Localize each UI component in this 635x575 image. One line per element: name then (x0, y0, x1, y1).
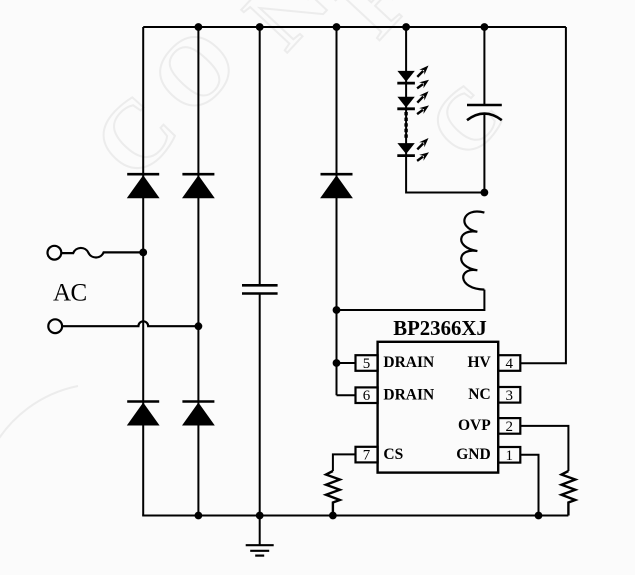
wire drain branch (336, 27, 338, 395)
pin 3 box (498, 387, 520, 404)
wire pin6 stub (337, 394, 356, 396)
pin 4 box (498, 355, 520, 372)
diode D4 (182, 402, 215, 426)
svg-text:4: 4 (505, 356, 513, 372)
wire inductor return (337, 290, 485, 310)
svg-text:NC: NC (468, 386, 490, 403)
node inductor top junction (481, 189, 489, 197)
pin 5 box (356, 355, 378, 372)
svg-text:HV: HV (467, 354, 491, 371)
label DRAIN pin5 (383, 354, 434, 371)
node top bus junctions (195, 23, 489, 31)
wire top bus (143, 26, 566, 28)
node pin5 junction (333, 359, 341, 367)
node fuse-bridge junction (139, 249, 147, 257)
capacitor C2 output (467, 105, 502, 120)
label HV (467, 354, 491, 371)
pin 6 box (356, 387, 378, 404)
svg-text:CS: CS (383, 446, 403, 463)
pin 2 box (498, 418, 520, 435)
svg-text:AC: AC (53, 280, 87, 307)
diode D3 (127, 402, 160, 426)
node bottom bus junctions (195, 512, 543, 520)
svg-text:OVP: OVP (458, 417, 491, 434)
terminal AC neutral (48, 319, 62, 333)
label CS (383, 446, 403, 463)
svg-text:DRAIN: DRAIN (383, 354, 434, 371)
label BP2366XJ (393, 317, 487, 340)
svg-text:DRAIN: DRAIN (383, 386, 434, 403)
svg-text:BP2366XJ: BP2366XJ (393, 317, 487, 340)
wire HV branch (521, 27, 566, 363)
svg-text:2: 2 (505, 419, 513, 435)
diode D1 (127, 174, 160, 198)
wire bulk capacitor branch (259, 27, 261, 516)
label DRAIN pin6 (383, 386, 434, 403)
label AC (53, 280, 87, 307)
svg-text:3: 3 (505, 388, 513, 404)
inductor L1 (461, 212, 484, 290)
pin 1 box (498, 447, 520, 464)
ground (246, 516, 274, 556)
svg-text:1: 1 (505, 448, 513, 464)
wire second bridge branch (197, 27, 199, 516)
wire OVP network (521, 426, 569, 471)
LED string LED2 (397, 91, 429, 114)
node drain-inductor junction (333, 306, 341, 314)
IC U1 BP2366XJ body (378, 342, 499, 473)
pin 7 box (356, 447, 378, 464)
LED string dotted continuation (404, 112, 407, 138)
wire GND pin to bottom bus (521, 455, 539, 516)
resistor R1 (326, 471, 340, 516)
LED string LED1 (397, 66, 429, 89)
node neutral-bridge junction (195, 322, 203, 330)
diode D2 (182, 174, 215, 198)
LED string LED3 (397, 138, 429, 161)
wire left bridge branch (142, 27, 144, 516)
resistor R2 (562, 471, 576, 516)
svg-text:7: 7 (363, 448, 371, 464)
wire output capacitor branch (483, 27, 485, 193)
label OVP (458, 417, 491, 434)
wire LED branch (406, 27, 484, 193)
wire CS network (333, 454, 356, 471)
label NC (468, 386, 490, 403)
wire bottom bus (142, 515, 568, 517)
svg-text:GND: GND (456, 446, 490, 463)
wire AC neutral with crossover hop (62, 321, 198, 326)
svg-text:6: 6 (363, 388, 371, 404)
svg-text:5: 5 (363, 356, 371, 372)
capacitor C1 bulk (242, 285, 278, 293)
wire pin5 stub (337, 362, 356, 364)
terminal AC line (48, 246, 62, 260)
fuse F1 (62, 248, 144, 258)
diode D5 freewheel (320, 174, 353, 198)
label GND (456, 446, 490, 463)
